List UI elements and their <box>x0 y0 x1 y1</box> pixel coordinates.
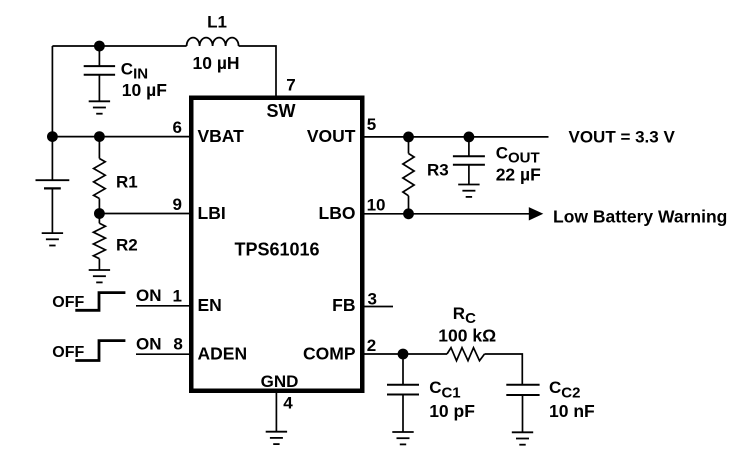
wire VOUT <box>365 136 549 138</box>
svg-text:ADEN: ADEN <box>198 344 248 364</box>
svg-text:10 pF: 10 pF <box>429 401 475 421</box>
svg-text:3: 3 <box>368 289 377 308</box>
wire ADEN <box>136 353 189 355</box>
svg-text:7: 7 <box>286 76 295 95</box>
ground (CC2) <box>512 432 533 444</box>
capacitor C_OUT <box>453 137 485 185</box>
svg-text:R1: R1 <box>116 173 138 192</box>
svg-text:FB: FB <box>332 295 355 315</box>
node dot R3 top <box>403 132 414 143</box>
wire top net: battery to inductor to SW <box>52 46 276 96</box>
capacitor C_IN <box>84 46 115 101</box>
svg-text:2: 2 <box>367 336 376 355</box>
ground (C_OUT) <box>458 185 479 197</box>
wire LBI <box>99 213 189 215</box>
svg-text:10 µF: 10 µF <box>122 80 167 100</box>
svg-text:GND: GND <box>261 372 299 391</box>
svg-text:R3: R3 <box>427 160 449 179</box>
svg-text:VOUT: VOUT <box>307 126 356 146</box>
wire EN <box>136 305 189 307</box>
ground (R2) <box>89 270 110 282</box>
svg-text:OFF: OFF <box>52 344 84 361</box>
svg-text:ON: ON <box>136 334 162 353</box>
svg-text:9: 9 <box>173 195 182 214</box>
resistor R1 <box>94 137 106 214</box>
wire COMP <box>365 353 448 355</box>
svg-text:100 kΩ: 100 kΩ <box>438 325 496 345</box>
op IC U1 TPS61016 box <box>191 98 362 391</box>
resistor RC <box>447 348 485 361</box>
svg-text:ON: ON <box>136 286 162 305</box>
resistor R2 <box>93 214 105 271</box>
wire LBO <box>365 213 530 215</box>
svg-text:SW: SW <box>267 101 296 121</box>
ground (C_IN) <box>89 101 110 113</box>
svg-text:5: 5 <box>367 115 376 134</box>
svg-text:1: 1 <box>173 287 182 306</box>
svg-text:LBO: LBO <box>319 203 356 223</box>
svg-text:Low Battery Warning: Low Battery Warning <box>553 207 727 227</box>
svg-text:8: 8 <box>173 335 182 354</box>
node dot R3 bottom <box>403 208 414 219</box>
wire VBAT <box>52 136 189 138</box>
svg-text:COMP: COMP <box>303 344 356 364</box>
svg-text:TPS61016: TPS61016 <box>235 239 320 259</box>
wire left vertical <box>51 46 53 180</box>
node dot left <box>47 131 58 142</box>
svg-text:LBI: LBI <box>198 203 226 223</box>
wire GND pin 4 <box>275 393 277 432</box>
svg-text:10 µH: 10 µH <box>193 53 240 73</box>
svg-text:6: 6 <box>173 118 182 137</box>
svg-text:10 nF: 10 nF <box>549 401 595 421</box>
wire RC to CC2 <box>485 354 523 385</box>
svg-text:VOUT = 3.3 V: VOUT = 3.3 V <box>569 128 676 147</box>
node dot C_IN top <box>94 41 105 52</box>
svg-text:4: 4 <box>283 393 293 412</box>
ground (battery) <box>42 233 63 245</box>
ground (GND pin) <box>266 432 287 444</box>
svg-text:L1: L1 <box>207 13 227 32</box>
node dot COMP <box>398 349 409 360</box>
battery <box>36 180 70 233</box>
ground (CC1) <box>392 432 413 444</box>
node dot C_OUT top <box>464 132 475 143</box>
inductor L1 <box>187 38 239 46</box>
node dot R1 top <box>94 131 105 142</box>
svg-text:22 µF: 22 µF <box>496 164 541 184</box>
capacitor CC1 <box>387 354 419 432</box>
svg-text:R2: R2 <box>116 235 138 254</box>
node dot R1/R2 <box>94 208 105 219</box>
svg-text:EN: EN <box>198 295 222 315</box>
svg-text:OFF: OFF <box>52 294 84 311</box>
arrow low battery <box>529 207 544 220</box>
wire FB stub <box>365 306 394 308</box>
svg-text:VBAT: VBAT <box>198 126 245 146</box>
resistor R3 <box>403 137 414 214</box>
capacitor CC2 <box>506 385 539 433</box>
svg-text:10: 10 <box>367 195 386 214</box>
